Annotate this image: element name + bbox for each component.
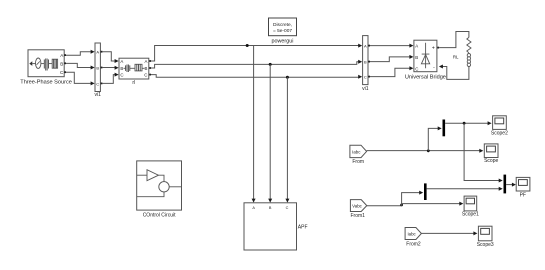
scope PF [516,177,530,191]
junction dot scope2 branch [463,122,466,125]
bridge U2 diode cathode line [422,43,430,68]
svg-text:APF: APF [298,225,308,231]
wire drop phase C to APF [286,77,288,199]
svg-text:Scope2: Scope2 [491,131,508,137]
svg-text:C: C [364,75,367,80]
wire Vabc branch to mux2 [402,193,421,206]
meter VI1 out port A [101,51,103,53]
from tag Iabc2 [405,228,421,240]
wire Iabc branch to mux1 [428,128,438,150]
source U1 icon arrow [29,61,32,66]
wire mux3 to PF [506,184,513,186]
svg-text:C: C [96,81,99,86]
wire srcA to vi1 A [66,52,92,56]
wire vi1B to rl B [102,67,115,69]
subsystem control circuit block body [137,161,182,210]
svg-text:PF: PF [520,192,526,198]
mux M2 [424,183,427,200]
wire bus phase B [151,62,359,68]
svg-text:Scope: Scope [484,158,498,164]
svg-text:From: From [352,159,364,165]
scope Scope [484,144,498,158]
junction dot phase A tap [246,44,249,47]
branch rl icon wire [124,67,126,69]
wire vi2B to bridge B [370,57,410,62]
branch rl icon wire [142,67,145,69]
svg-text:A: A [96,50,99,55]
svg-text:Vabc: Vabc [352,204,362,209]
meter VI2 right measurement block body [363,36,368,85]
meter VI1 out port C [101,83,103,85]
svg-text:vi1: vi1 [362,86,369,92]
svg-text:COntrol Circuit: COntrol Circuit [143,212,176,218]
svg-text:B: B [120,66,123,71]
wire srcB to vi1 B [66,63,92,67]
svg-text:B: B [144,66,147,71]
svg-text:C: C [415,66,418,71]
svg-text:B: B [415,55,418,60]
source U1 port B [64,62,66,64]
powergui block body [269,18,297,36]
branch rl three-phase series RL block body [119,58,149,79]
svg-text:A: A [415,44,418,49]
svg-text:B: B [96,65,99,70]
source U1 icon inductor [44,59,48,71]
source U1 icon sine [37,61,40,64]
inductor RL load coil (4 loops) [467,54,470,57]
branch rl out port B [149,67,151,69]
mux M3 [504,175,507,194]
svg-text:Universal Bridge: Universal Bridge [405,75,446,81]
wire Iabc to Scope [367,150,481,152]
from tag Iabc [350,145,367,157]
branch rl icon resistor hatch [137,64,140,71]
wire load to bridge minus [441,67,469,80]
svg-text:RL: RL [453,54,459,59]
control circuit icon bottom line [137,192,164,197]
svg-text:rl: rl [132,80,135,86]
svg-text:vi1: vi1 [94,92,101,98]
wire Vabc out [367,205,402,207]
from tag Vabc [350,200,366,212]
branch rl icon wire [130,67,135,69]
wire bridge plus to load [439,32,469,48]
svg-text:From1: From1 [350,213,365,219]
junction dot Vabc branch [400,204,403,207]
branch rl icon inductor [126,65,130,73]
source U1 icon AC circle [36,58,41,68]
wire branch down to mux3 top input [464,123,500,180]
control circuit icon link [159,175,165,181]
junction dot phase B tap [269,63,272,66]
meter VI2 out port B [368,61,370,63]
wire mux1 to Scope2 [445,122,488,124]
meter VI2 out port A [368,45,370,47]
control circuit icon triangle [147,170,159,181]
meter VI2 out port C [368,76,370,78]
bridge U2 Universal Bridge block body [414,40,437,71]
svg-text:B: B [364,60,367,65]
svg-text:= 5e-007: = 5e-007 [273,28,292,34]
wire drop phase B to APF [269,64,271,199]
mux M1 [443,120,446,137]
source U1 icon resistor hatch [54,59,57,68]
svg-text:A: A [144,59,147,64]
resistor RL load zigzag [467,37,471,52]
svg-text:C: C [144,73,147,78]
source U1 port C [64,71,66,73]
source U1 icon wire [32,63,35,65]
source U1 port A [64,54,66,56]
svg-text:A: A [120,59,123,64]
wire bus phase A [151,46,359,62]
wire drop phase A to APF [253,46,255,200]
scope Scope1 [464,196,477,211]
wire srcC to vi1 C [66,72,92,83]
bridge U2 diode triangle [421,55,429,64]
svg-text:C: C [286,206,289,210]
branch rl icon resistor [135,64,142,71]
control circuit icon output line [169,186,181,188]
wire vi2C to bridge C [370,68,410,76]
junction dot phase C tap [286,76,289,79]
source U1 Three-Phase Source block body [28,50,64,77]
svg-text:Iabc: Iabc [352,149,361,154]
svg-text:Scope1: Scope1 [462,211,479,217]
svg-text:Three-Phase Source: Three-Phase Source [20,80,72,86]
svg-text:B: B [269,206,272,210]
bridge U2 out port plus [437,47,439,49]
control circuit icon input line [137,174,147,176]
wire bus phase C [151,75,359,78]
wire vi2A to bridge A [370,45,410,47]
svg-text:Discrete,: Discrete, [273,22,292,28]
wire vi1A to rl A [102,52,115,61]
branch rl out port C [149,74,151,76]
source U1 icon resistor [52,59,57,68]
wire mux2 to mux3 bottom input [427,188,500,190]
source U1 icon wire [49,63,53,65]
meter VI1 left measurement block body [95,43,100,92]
wire vi1C to rl C [102,75,115,84]
svg-text:C: C [120,73,123,78]
wire Vabc to Scope1 [402,203,461,205]
svg-text:B: B [60,61,63,66]
scope Scope3 [478,226,492,241]
branch rl out port A [149,60,151,62]
svg-text:A: A [364,44,367,49]
subsystem APF block body [244,203,297,250]
svg-text:Iabc: Iabc [407,231,416,236]
svg-text:powergui: powergui [272,39,294,45]
control circuit icon circle [159,182,169,192]
meter VI1 out port B [101,67,103,69]
source U1 icon wire [41,63,44,65]
svg-text:From2: From2 [406,241,421,247]
scope Scope2 [493,116,507,130]
svg-text:Scope3: Scope3 [477,242,494,248]
wire Iabc2 to Scope3 [421,232,474,234]
svg-text:+: + [432,46,435,52]
junction dot Iabc branch [427,149,430,152]
